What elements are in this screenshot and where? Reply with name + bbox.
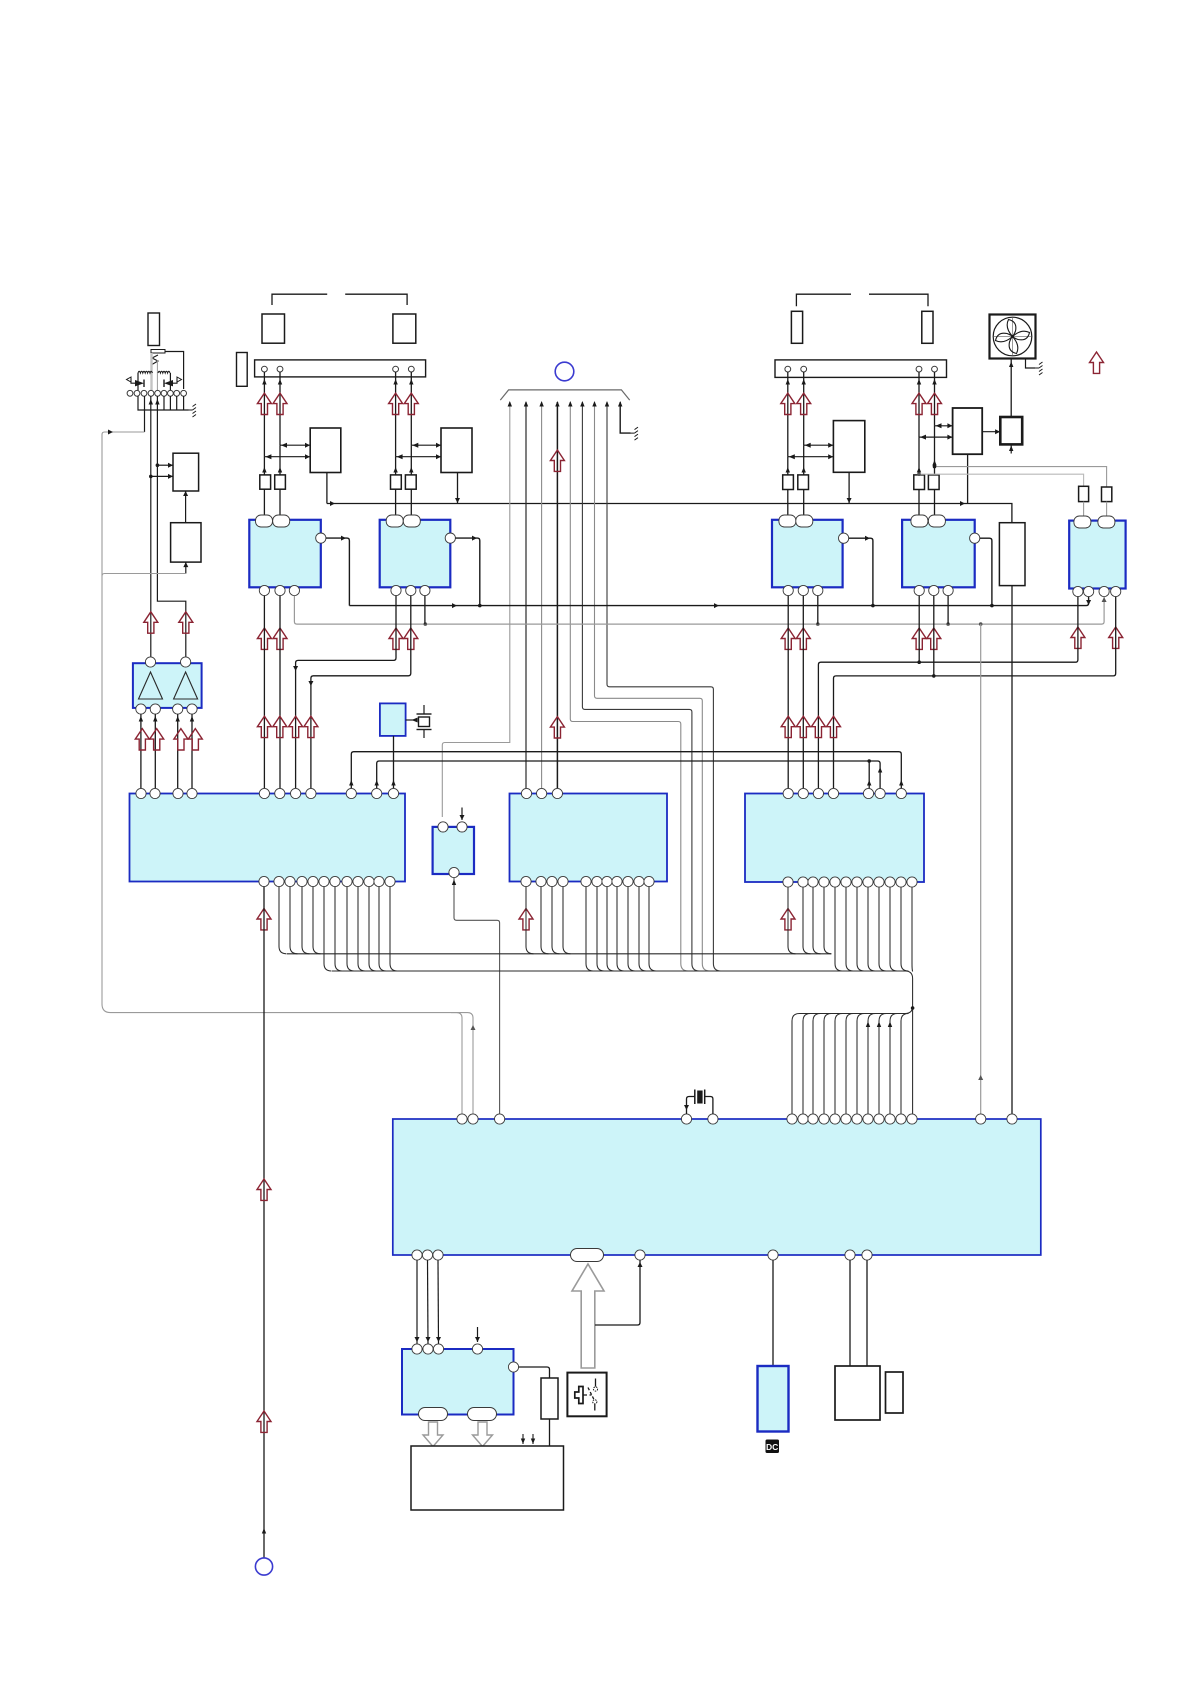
wire term L2- down [409,372,413,445]
input pads R1 [779,515,813,527]
main IC block B [510,794,668,882]
bottom block top pins [457,1114,1017,1124]
fan rotor [993,317,1032,356]
driver block ch1 [310,428,341,473]
wire R1c2 down to block C [802,596,804,789]
op-amp bottom pins [136,704,197,714]
transformer drive block E [402,1349,514,1415]
wire ch3 resistors to IC R1 pads [788,490,804,516]
bottom pins R2 [914,585,953,595]
power input pad pill [571,1249,604,1262]
tall relay rect [999,523,1025,586]
left speaker box SP1 [262,314,285,343]
stub under bold block [1009,444,1013,453]
red arrow bus line4 lower [550,717,564,738]
resistor ch3 R1 [783,475,794,490]
bus606 horizontal [349,597,1091,608]
red arrow quad above block A inputs [257,716,318,737]
left speaker bracket [272,294,407,305]
bottom pins R1 [783,585,823,595]
gray line R2 to right resistor B [917,472,1083,486]
wire U12 bottom to gray rail [183,562,188,573]
red arrow ch3a [781,393,795,414]
power transformer box [411,1446,564,1510]
input pads L1 [256,515,290,527]
wire term R2+ down [917,372,921,437]
input pads R2 [911,515,946,527]
wire ch1 in1 [280,443,310,448]
wire ch4 resistors to IC R2 pads [919,490,935,516]
net R3c4 R2c2 to block C [834,597,1116,789]
wire ch4 vert resume [917,426,937,475]
AC cord bar [151,350,165,354]
wire ch4 in2 [919,435,953,440]
wire relay to bold block [982,429,1000,434]
bottom pins R3 [1073,586,1121,596]
DC-DC block F [758,1366,789,1432]
right pin circle L1 [316,533,326,543]
driver block ch2 [441,428,472,473]
red arrow under block C [781,909,795,930]
resistor ch2 R2 [405,475,416,489]
wire R1 out to bus606 [849,536,875,608]
wire ch1 in2 [264,454,310,459]
gray feedback wire bottom run [102,1004,476,1114]
aux block D [433,827,474,874]
terminal pins right strip [785,366,938,372]
op-amp A triangle [139,672,163,699]
fuse zigzag [151,355,158,365]
red arrow under R3 c4 [1109,627,1123,648]
bus trapezoid [500,390,629,400]
red arrows under R1 [781,628,810,649]
bus line 6 [580,401,699,971]
DC badge [766,1440,780,1454]
diode D1 [127,377,145,387]
wire AC pin3 down [144,396,146,432]
fan ground wire [1026,359,1036,369]
block D top pins [438,822,467,832]
red arrow under block B [519,909,533,930]
wire term L1- down [278,372,282,445]
node blue circle center [555,362,574,381]
gray line R2 to right resistor A [933,465,1107,487]
wire ch2 resistors to IC L2 pads [396,489,412,515]
wire standby L [595,1260,643,1325]
block A output wires to band1 [279,887,321,954]
wire U12 to U11 [183,491,188,523]
wire term R1+ down [786,372,790,457]
red arrow ch2b [404,393,418,414]
wire R2c2 drop [933,596,935,676]
red arrow ch4a [912,393,926,414]
block A bottom pins [259,876,395,886]
jack blue circle [255,1558,272,1575]
white down arrow 2 [473,1422,493,1447]
gray feedback wire top [102,430,145,1005]
bus line 1 [442,401,512,817]
stub into E pin4 [475,1327,480,1342]
system control block bottom [393,1119,1041,1255]
bus line 4 [555,401,559,788]
transformer frame right leg [169,373,171,391]
block E bottom pads [419,1408,497,1421]
bus line 5 [568,401,688,971]
connector block left of strip [237,353,248,387]
wire term L2+ down [393,372,397,457]
resistor ch2 R1 [391,475,402,489]
stub into D pin2 [460,808,465,821]
block B bottom pins [521,876,654,886]
switch symbol inside [575,1379,598,1411]
wire ch2 in1 [411,443,441,448]
svg-text:DC: DC [766,1442,778,1452]
red arrows under R2 [912,628,941,649]
relay output block bold [1000,417,1022,444]
white down arrow 1 [423,1422,443,1447]
wire ch3 in2 [788,454,834,459]
wire term R2- down [932,372,936,426]
block A output wires to band2 [324,887,398,971]
resistor ch4 R1 [914,475,925,490]
left speaker terminal strip [255,360,426,377]
ground symbol center [631,427,639,440]
bus line 2 [524,401,528,788]
wire R1c3 to bus624 [817,596,819,624]
red arrow quad above block C inputs [781,716,840,737]
wire L1 out to bus606 [326,536,349,606]
wire ch1 vert a resume [262,445,282,475]
block E right pin [508,1362,518,1372]
input pads L2 [386,515,420,527]
wire driver ch2 to bus503 [455,473,460,504]
bottom pins L1 [259,585,299,595]
op-amp top pins [145,657,190,667]
AC connector pins row [127,390,186,396]
gray feedback branch 2 [451,1013,462,1114]
AC ground bus wire [138,396,189,410]
wire D bottom out [452,878,500,1114]
wire L2c3 to bus624 [424,596,426,624]
transformer primary coil left [138,371,152,373]
bus761 A to C [375,759,883,788]
right pin circle R2 [970,533,980,543]
gray rail to left wire [102,574,186,577]
block C top pins [783,788,906,798]
resistor ch4 R2 [928,475,939,490]
wire ch2 in2 [396,454,441,459]
wire term L1+ down [262,372,266,457]
wire L1c1 down to block A [263,596,265,789]
red arrow ch1a [257,393,271,414]
AC power plug cap [148,313,160,346]
wire R2c3 to bus624 [947,596,949,624]
transformer frame left leg [137,373,139,391]
block C bottom pins [783,877,917,887]
right speaker box SP4 [922,311,933,343]
wire R1c1 down to block C [787,596,789,789]
wire bus761 T-drop [867,761,871,788]
bus503 horizontal [327,501,1012,523]
block E top pins [412,1344,483,1354]
block B output wires to band1 [526,887,571,954]
gray bus624 [294,596,1106,626]
wire ch4 in1 [935,423,953,428]
wire driver ch1 to bus503 [326,473,328,504]
input pads R3 [1074,516,1115,528]
left speaker box SP2 [393,314,416,343]
wire tall rect down [1011,586,1013,1114]
right pin circle L2 [445,533,455,543]
red arrows above op-amp [144,612,193,633]
ground symbol AC [189,404,197,417]
crystal osc block [380,703,406,736]
power amp IC L1 [249,520,320,588]
power switch box [567,1373,606,1417]
right speaker box SP3 [791,311,802,343]
wires op-amp outputs down [139,714,195,788]
long output wire to jack [262,887,266,1558]
wire ch3 vert resume [786,445,806,475]
resistor ch1 R2 [275,475,286,489]
resistor ch1 R1 [260,475,271,489]
transformer primary coil right [158,371,170,373]
wire L2c2 jog to block A [308,596,410,789]
red arrow long wire 1 [257,1179,271,1200]
right pin circle R1 [839,533,849,543]
wire AC pin4 down to op-amp [149,396,153,663]
power amp IC R2 [902,520,975,588]
wire term R1- down [802,372,806,445]
red arrow bus line4 [550,450,564,471]
wire into U11 input B [149,474,173,479]
AC inlet box G [835,1366,880,1420]
wire C pin12 tap [911,887,914,971]
driver block ch3 [833,421,864,473]
power amp IC L2 [380,520,451,588]
right speaker bracket [796,294,928,306]
wire crystal to block [406,718,418,723]
resistor right B [1102,487,1112,502]
wire L2 out to bus606 [456,536,482,608]
wire into U11 input A [156,463,173,468]
resistor ch3 R2 [798,475,809,490]
terminal pins left strip [262,366,415,372]
red arrow ch1b [273,393,287,414]
bus line 3 [539,401,543,788]
gray cord conductor 2 [156,360,158,390]
block B output wires to band2 [586,887,657,971]
red arrow far right [1090,352,1104,373]
wire L2c1 jog to block A [293,596,396,789]
wire ch2 vert resume [393,445,413,475]
wire AC pin5 down bend to op-amp right input [155,396,186,658]
AC inlet side box G2 [886,1372,904,1413]
regulator block U12 [171,523,201,562]
wires to block G [850,1260,867,1366]
red arrow under R3 c1 [1071,627,1085,648]
driver block ch4 relay [953,408,983,454]
wire R2c1 drop [918,596,920,662]
wire harness bands and risers [287,954,914,1114]
bus line 7 [592,401,710,971]
op-amp B triangle [174,672,198,699]
fan frame [990,315,1036,359]
power amp IC R1 [772,520,843,588]
wire driver ch3 to bus503 [847,472,852,503]
wire E right to resistor to box [519,1367,550,1446]
wire from cord bar to pin 9 [165,352,184,390]
red arrows under L1 [257,628,287,649]
wire L1c2 down to block A [279,596,281,789]
wire R2 out to bus606 [980,538,994,607]
net R3c1 R2c1 to block C [818,597,1078,789]
block B top pins [521,788,562,798]
block C output wires to band1 [788,887,832,954]
wires bottom block to E [415,1260,442,1344]
main IC block A [130,794,406,882]
block A top pins [136,788,399,798]
gray drop from bus624 [978,624,983,1114]
red arrow ch4b [928,393,942,414]
crystal X1 [417,705,432,738]
red arrow quad below op-amp [135,729,202,750]
resistor bottom K [541,1378,558,1419]
wire crystal block down to block A [391,736,395,788]
red arrow long wire 2 [257,1411,271,1432]
block C output wires to band2 [835,887,909,971]
right speaker terminal strip [775,360,947,378]
ground symbol fan [1035,362,1043,375]
block D bottom pin [449,867,459,877]
wire driver ch4 to bus503 [960,454,968,506]
power amp IC R3 [1069,521,1125,589]
red arrow under block A [257,909,271,930]
wire resistors to IC L1 pads [264,489,280,515]
diode D2 [164,377,182,387]
bus line 8 [605,401,721,971]
protection circuit block U11 [173,453,199,491]
wire ch3 in1 [804,443,834,448]
op-amp block U2 [133,663,202,708]
wire right resistors to IC R3 pads [1084,502,1107,516]
red arrows under L2 [389,628,418,649]
red arrow ch2a [389,393,403,414]
red arrow ch3b [797,393,811,414]
resistor right A [1079,486,1089,501]
ticks into transformer box [521,1434,535,1444]
big power arrow [572,1264,604,1368]
crystal X2 [684,1090,713,1115]
wire fan to bold block [1009,359,1013,418]
bus751 A to C [349,752,903,789]
main IC block C [745,794,924,883]
bus line 9 to ground [618,401,631,433]
bottom block bottom pins [412,1250,872,1260]
gray cord conductor 1 [150,353,152,390]
bottom pins L2 [391,585,430,595]
wire to DC block [772,1260,774,1366]
